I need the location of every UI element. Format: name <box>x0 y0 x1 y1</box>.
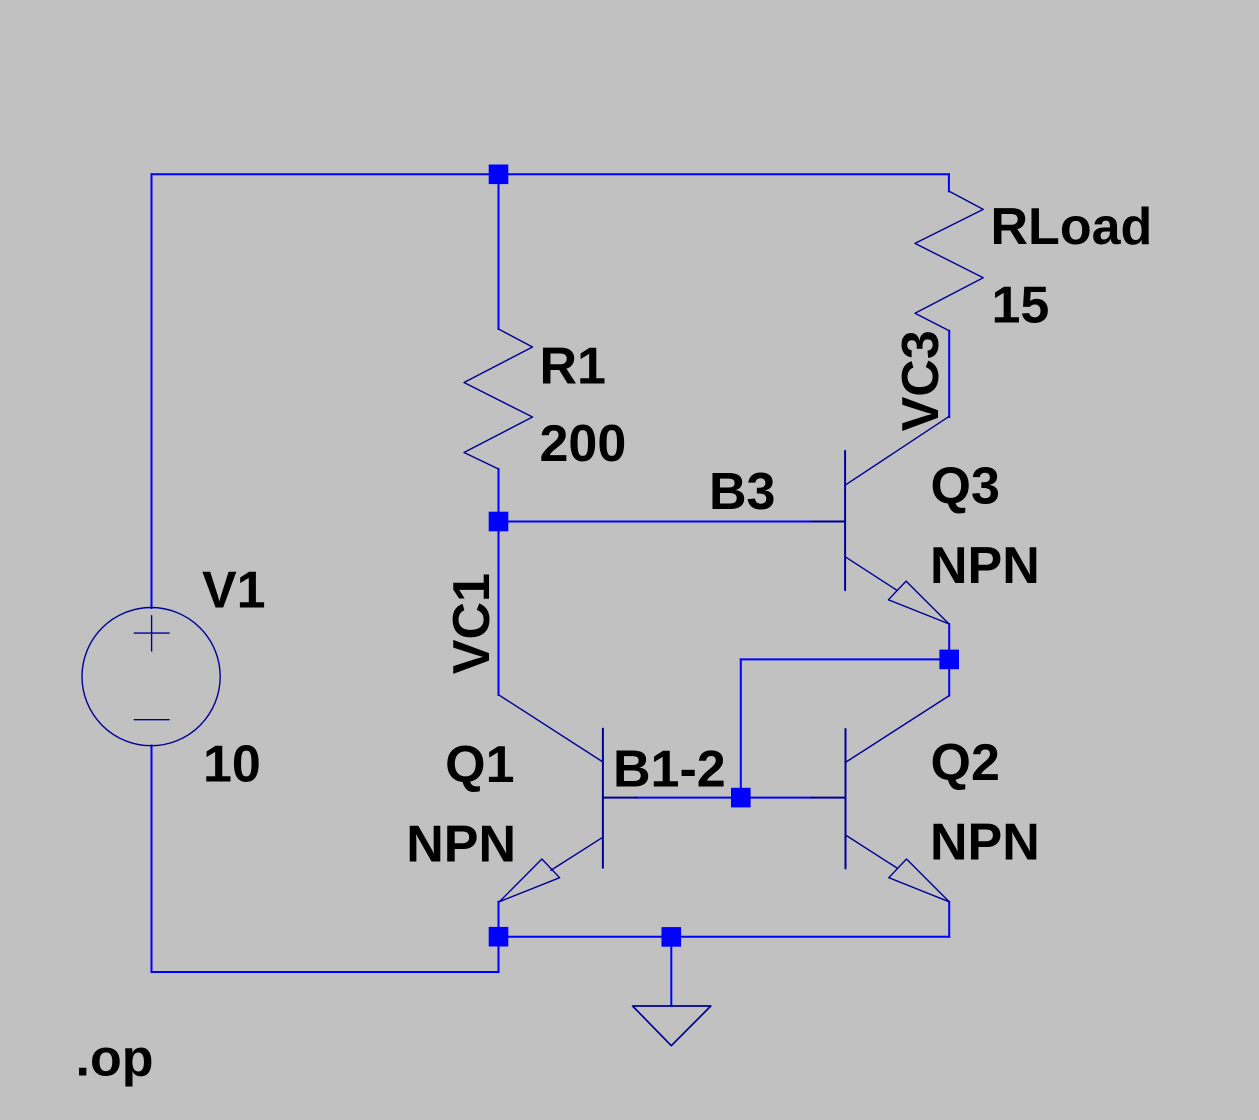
voltage source V1 circle <box>82 608 220 746</box>
node junction B1-2 <box>731 788 751 808</box>
svg-text:VC1: VC1 <box>443 573 501 674</box>
V1 minus sign <box>134 719 169 721</box>
wire Q2 collector lead <box>948 659 950 695</box>
svg-text:R1: R1 <box>540 338 606 396</box>
svg-text:Q2: Q2 <box>931 734 1000 792</box>
wire Q2 emitter lead <box>948 902 950 937</box>
wire Q3 emitter lead <box>948 624 950 659</box>
svg-text:15: 15 <box>992 277 1050 335</box>
V1 plus sign <box>134 632 169 634</box>
wire feedback vertical B1-2 up <box>740 659 742 797</box>
svg-text:NPN: NPN <box>406 816 516 874</box>
svg-text:B3: B3 <box>709 463 775 521</box>
svg-text:200: 200 <box>540 415 627 473</box>
svg-text:Q3: Q3 <box>931 458 1000 516</box>
node junction R1 bottom / B3 <box>489 512 509 532</box>
ground symbol <box>633 1006 711 1046</box>
wire ground rail <box>499 936 950 938</box>
wire node B1-2 to Q2 base <box>741 797 812 799</box>
wire ground stem <box>670 937 672 1006</box>
wire left V1 bottom <box>151 746 153 973</box>
svg-text:VC3: VC3 <box>892 330 950 431</box>
wire left V1 top <box>151 174 153 608</box>
svg-text:Q1: Q1 <box>445 736 514 794</box>
resistor R1 zigzag <box>464 329 533 469</box>
svg-text:10: 10 <box>203 736 261 794</box>
svg-text:B1-2: B1-2 <box>613 741 726 799</box>
transistor Q2 body <box>812 696 950 902</box>
transistor Q1 body (mirrored) <box>499 695 637 901</box>
wire R1 top lead <box>498 174 500 329</box>
wire node B3 horizontal <box>499 521 813 523</box>
wire RLoad top lead <box>948 174 950 191</box>
wire feedback horizontal to Q3 emitter node <box>741 658 949 660</box>
wire VC1 vertical <box>498 522 500 696</box>
wire Q1 base to node B1-2 <box>637 797 741 799</box>
wire RLoad bottom lead / Q3 collector <box>948 331 950 417</box>
svg-text:.op: .op <box>76 1030 154 1088</box>
node junction Q3 emitter / Q2 collector <box>939 650 959 670</box>
svg-text:NPN: NPN <box>930 814 1040 872</box>
node junction top (R1/V+) <box>489 165 509 185</box>
transistor Q3 body <box>812 417 949 624</box>
wire top rail V+ <box>152 173 949 175</box>
node junction Q1 emitter / ground rail <box>489 927 509 947</box>
resistor RLoad zigzag <box>915 191 983 330</box>
svg-text:RLoad: RLoad <box>991 198 1153 256</box>
node junction ground stem <box>662 927 682 947</box>
wire bottom from V1 to Q1 emitter <box>152 937 499 972</box>
wire Q1 emitter lead <box>498 902 500 937</box>
svg-text:NPN: NPN <box>930 537 1040 595</box>
svg-text:V1: V1 <box>202 562 266 620</box>
wire R1 bottom lead <box>498 469 500 522</box>
